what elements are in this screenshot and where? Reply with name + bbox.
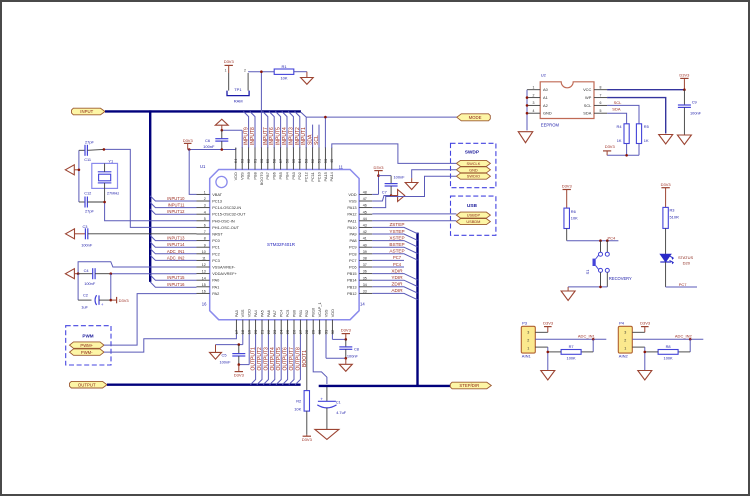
svg-text:D3V3: D3V3	[679, 72, 690, 77]
svg-text:INPUT5: INPUT5	[276, 127, 282, 145]
svg-text:PB5: PB5	[278, 172, 283, 179]
capacitor C5	[232, 345, 245, 365]
junction VBAT/D3V3	[188, 148, 191, 151]
wire net OUTPUT7 from U1 pin 26	[289, 335, 294, 385]
wire U2 address pins to ground	[526, 90, 528, 131]
wire net OUTPUT2 from U1 pin 21	[257, 335, 262, 385]
wire D3V3 to U1 pin 64	[188, 148, 236, 150]
svg-text:PB8: PB8	[252, 172, 257, 179]
svg-text:YSTEP: YSTEP	[389, 229, 404, 234]
power D3V3 (C2)	[111, 297, 130, 303]
value AIN2 (P4)	[619, 354, 629, 359]
svg-text:SDA: SDA	[308, 134, 314, 145]
svg-text:PB6: PB6	[272, 172, 277, 179]
port PWM+	[70, 342, 105, 348]
resistor R2	[304, 391, 309, 412]
junction D3V3 pin48	[377, 174, 380, 177]
mcu U1 body	[210, 170, 359, 320]
label D20	[683, 261, 691, 266]
svg-text:48: 48	[363, 191, 367, 195]
svg-text:53: 53	[304, 158, 309, 163]
mcu corner number 14	[360, 301, 365, 306]
net label XDIR	[391, 268, 403, 273]
svg-text:R7: R7	[569, 344, 574, 349]
resistor R1	[274, 69, 294, 74]
svg-text:36: 36	[363, 270, 367, 274]
net label OUTPUT5	[276, 347, 282, 371]
wire C2 left rail	[78, 274, 91, 300]
svg-text:+: +	[320, 398, 323, 403]
svg-text:INPUT14: INPUT14	[167, 242, 185, 247]
svg-text:1: 1	[225, 69, 227, 73]
svg-text:24: 24	[279, 329, 284, 334]
U1 pins top side (64-49)	[233, 148, 334, 186]
net label YSTEP	[389, 229, 404, 234]
svg-text:VSS: VSS	[349, 199, 357, 204]
svg-text:PC2: PC2	[212, 251, 220, 256]
label C1	[336, 399, 341, 404]
wire crystal ground rail	[78, 150, 80, 202]
label C3	[83, 224, 88, 229]
svg-text:STM32F401R: STM32F401R	[267, 242, 296, 247]
wire WP net (U2 pin 7 to ground)	[607, 98, 666, 134]
ground (C9)	[677, 135, 691, 145]
capacitor C3	[85, 228, 87, 239]
svg-text:OUTPUT6: OUTPUT6	[283, 347, 289, 371]
svg-text:D3V3: D3V3	[373, 165, 384, 170]
svg-text:PC1: PC1	[212, 245, 220, 250]
svg-text:PB14: PB14	[347, 278, 357, 283]
power D3V3 (C5 group)	[234, 365, 245, 378]
svg-text:BOOT0: BOOT0	[259, 171, 264, 185]
svg-text:PWM: PWM	[82, 334, 93, 339]
svg-text:PB2: PB2	[304, 310, 309, 317]
net label INPUT7	[263, 127, 269, 145]
wire D3V3 node to C10 top	[379, 175, 392, 177]
wire net ZDIR from U1 pin 34	[372, 287, 417, 293]
wire net ADC_IN2 to U1 pin 11	[150, 255, 196, 260]
svg-text:27: 27	[298, 329, 303, 334]
net label INPUT15	[167, 275, 185, 280]
svg-text:P3: P3	[522, 321, 528, 326]
svg-text:PB1: PB1	[298, 310, 303, 317]
svg-text:U1: U1	[200, 164, 206, 169]
crystal Y1	[92, 163, 118, 188]
svg-text:14: 14	[360, 301, 365, 306]
wire net XDIR from U1 pin 36	[372, 274, 417, 280]
wire C4-C7 right rail	[110, 274, 112, 300]
svg-text:PC6: PC6	[349, 265, 357, 270]
svg-text:PWM+: PWM+	[80, 343, 93, 348]
svg-text:4: 4	[533, 109, 535, 113]
junction gnd rail	[78, 169, 81, 172]
svg-text:100nF: 100nF	[394, 174, 406, 179]
svg-text:ADC_IN1: ADC_IN1	[167, 249, 185, 254]
label C6	[205, 138, 211, 143]
svg-text:18: 18	[240, 329, 245, 334]
U1 pins left side (1-16)	[197, 191, 247, 296]
svg-text:A0: A0	[543, 87, 549, 92]
svg-text:WP: WP	[585, 95, 592, 100]
svg-text:SWCLK: SWCLK	[466, 161, 480, 166]
capacitor C2 (1uF electrolytic)	[95, 295, 111, 307]
svg-text:7: 7	[204, 230, 206, 234]
label R7	[569, 344, 574, 349]
svg-text:27MHz: 27MHz	[107, 191, 119, 196]
wire P3 pin3 to D3V3	[535, 331, 548, 333]
dashed harness box SWDP	[451, 143, 496, 187]
svg-text:10: 10	[202, 250, 206, 254]
value 100nF (C10)	[394, 174, 406, 179]
resistor R7	[561, 350, 581, 355]
svg-text:PC12: PC12	[304, 172, 309, 182]
svg-text:INPUT2: INPUT2	[295, 127, 301, 145]
svg-text:D3V3: D3V3	[224, 59, 235, 64]
net label ADC_IN2	[167, 255, 185, 260]
svg-text:XDIR: XDIR	[391, 268, 403, 273]
svg-text:C8: C8	[354, 346, 359, 351]
svg-text:C9: C9	[692, 99, 697, 104]
capacitor C10	[385, 176, 398, 196]
svg-text:S1: S1	[585, 270, 590, 275]
power D3V3 (P3)	[543, 321, 554, 333]
wire net ADIR from U1 pin 33	[372, 293, 417, 299]
svg-text:PA0: PA0	[212, 278, 220, 283]
wire VSS node to U1 pin 63	[222, 130, 242, 148]
junction C8 bottom	[345, 357, 348, 360]
svg-text:INPUT13: INPUT13	[167, 236, 185, 241]
wire INPUT bus vertical	[149, 110, 151, 282]
value 10K (R6)	[571, 216, 578, 221]
wire SDA net (U2 pin 5 to R4)	[607, 113, 627, 124]
wire C10 bottom to U1 pin 47 VSS	[372, 196, 391, 202]
svg-text:28: 28	[304, 329, 309, 334]
ground (R1)	[301, 72, 314, 85]
svg-text:PH1-OSC-OUT: PH1-OSC-OUT	[212, 225, 239, 230]
power D3V3 (C9)	[679, 72, 690, 90]
svg-text:25: 25	[285, 329, 290, 334]
wire PWM+ to U1 pin 16	[104, 294, 197, 346]
wire net INPUT16 to U1 pin 15 (bus end)	[150, 282, 196, 287]
wire net YDIR from U1 pin 35	[372, 280, 417, 286]
wire net INPUT9 to U1 pin 62	[243, 111, 248, 148]
svg-text:PB15: PB15	[347, 271, 357, 276]
wire R3 to LED	[665, 228, 667, 254]
resistor R5	[636, 124, 641, 144]
ground (P4)	[638, 371, 652, 381]
net label INPUT11	[168, 203, 186, 208]
svg-text:39: 39	[363, 250, 367, 254]
power D3V3 (R3)	[661, 182, 672, 208]
wire pullup bottoms to D3V3	[607, 144, 639, 156]
svg-text:60: 60	[259, 158, 264, 163]
wire net PC4 stub from U1 pin 37	[372, 266, 404, 268]
svg-text:5: 5	[204, 217, 206, 221]
svg-text:4: 4	[204, 210, 206, 214]
U1 pins bottom side (17-32)	[234, 302, 335, 334]
label P3	[522, 321, 528, 326]
wire USBDP net (U1 pin 45 PA12 to port)	[372, 213, 456, 215]
value 100nF (C5)	[219, 360, 231, 365]
wire net INPUT2 to U1 pin 54	[295, 111, 300, 148]
ground (U2 address)	[518, 132, 533, 143]
wire U1 pin 29 PB10 to STEP/DIR bus	[313, 335, 327, 385]
svg-text:1: 1	[624, 347, 626, 351]
label C2	[83, 292, 88, 297]
junction S1 bottom	[599, 286, 602, 289]
wire net OUTPUT5 from U1 pin 24	[276, 335, 281, 385]
svg-text:23: 23	[272, 329, 277, 334]
svg-text:10K: 10K	[294, 407, 301, 412]
svg-text:19: 19	[247, 329, 252, 334]
net label INPUT5	[276, 127, 282, 145]
svg-text:VBAT: VBAT	[212, 192, 222, 197]
net label INPUT8	[250, 127, 256, 145]
svg-text:C11: C11	[84, 157, 91, 162]
wire net BOOT1 (U1 pin 28 to R2)	[306, 335, 308, 391]
svg-text:1K: 1K	[644, 138, 649, 143]
value 27pF (C12)	[85, 209, 94, 214]
resistor R4	[624, 124, 629, 144]
svg-text:D3V3: D3V3	[341, 328, 352, 333]
wire U1 pin 50 to MODE	[324, 117, 326, 148]
svg-text:3: 3	[624, 331, 626, 335]
svg-text:2: 2	[624, 339, 626, 343]
junction C10 bottom	[390, 194, 393, 197]
label STATUS (D20)	[678, 255, 694, 260]
svg-text:38: 38	[363, 257, 367, 261]
svg-text:64: 64	[233, 158, 238, 163]
eeprom U2 body	[540, 82, 594, 119]
wire R7 right leg	[581, 339, 593, 352]
svg-text:PA4: PA4	[253, 309, 258, 317]
junction ADC_IN1/R7	[592, 338, 595, 341]
svg-text:PC9: PC9	[349, 245, 357, 250]
label R3	[670, 208, 675, 213]
junction R8 left	[644, 351, 647, 354]
value 100K (R8)	[664, 356, 673, 361]
value 10K (R1)	[280, 76, 287, 81]
svg-text:GND: GND	[543, 111, 552, 116]
svg-text:41: 41	[363, 237, 367, 241]
svg-text:1: 1	[527, 347, 529, 351]
net label INPUT14	[167, 242, 185, 247]
junction S1 top right	[606, 239, 609, 242]
svg-text:32: 32	[330, 329, 335, 334]
net label ZSTEP	[389, 222, 404, 227]
svg-text:C6: C6	[205, 138, 211, 143]
wire D3V3 to U1 pin 48	[372, 176, 378, 195]
svg-text:SWDP: SWDP	[465, 150, 480, 156]
wire SWCLK net (U1 pin 49 to port)	[332, 144, 457, 164]
svg-text:BOOT1: BOOT1	[302, 350, 308, 367]
label R4	[617, 124, 623, 129]
port MODE	[457, 114, 491, 121]
wire net ASTEP from U1 pin 39	[372, 254, 417, 260]
svg-text:PH0-OSC-IN: PH0-OSC-IN	[212, 218, 235, 223]
port STEP/DIR	[450, 382, 491, 389]
net label YDIR	[391, 275, 403, 280]
svg-text:9: 9	[204, 243, 206, 247]
svg-text:OUTPUT3: OUTPUT3	[263, 347, 269, 371]
value 27MHz (Y1)	[107, 191, 119, 196]
wire S1 bottom to ground	[568, 286, 607, 288]
junction C4 left	[77, 272, 80, 275]
wire net BSTEP from U1 pin 40	[372, 247, 417, 253]
wire net INPUT5 to U1 pin 57	[275, 111, 280, 148]
net label INPUT3	[288, 127, 294, 145]
svg-text:USBDP: USBDP	[467, 213, 481, 218]
svg-text:YDIR: YDIR	[391, 275, 403, 280]
wire net INPUT12 to U1 pin 4	[150, 209, 196, 214]
value 1K (R5)	[644, 138, 649, 143]
svg-text:PA13: PA13	[347, 205, 356, 210]
wire net INPUT3 to U1 pin 55	[288, 111, 293, 148]
svg-text:34: 34	[363, 283, 367, 287]
svg-text:C2: C2	[83, 292, 88, 297]
capacitor C12	[79, 197, 104, 208]
svg-text:100K: 100K	[567, 356, 576, 361]
svg-text:PB0: PB0	[291, 309, 296, 317]
wire net XSTEP from U1 pin 41	[372, 241, 417, 247]
net label OUTPUT8	[295, 347, 301, 371]
svg-text:INPUT1: INPUT1	[301, 127, 307, 145]
svg-text:OUTPUT1: OUTPUT1	[251, 347, 257, 371]
svg-text:PC0: PC0	[212, 238, 220, 243]
svg-text:VSSA/VREF-: VSSA/VREF-	[212, 265, 236, 270]
svg-text:PC5: PC5	[285, 310, 290, 318]
svg-text:D3V3: D3V3	[119, 298, 130, 303]
net label ADIR	[391, 288, 403, 293]
svg-text:45: 45	[363, 210, 367, 214]
ground (WP)	[659, 135, 673, 145]
wire net INPUT11 to U1 pin 3	[150, 202, 196, 207]
svg-text:14: 14	[202, 276, 206, 280]
svg-text:2: 2	[204, 197, 206, 201]
value 1K (R4)	[617, 138, 622, 143]
wire net ADC_IN1 to U1 pin 10	[150, 249, 196, 254]
svg-text:PB3: PB3	[291, 172, 296, 179]
connector P3	[521, 326, 535, 353]
svg-text:5: 5	[600, 109, 602, 113]
ground (C5 group)	[210, 345, 222, 360]
wire net OUTPUT6 from U1 pin 25	[282, 335, 287, 385]
svg-text:+: +	[101, 302, 104, 307]
port SWCLK	[456, 160, 490, 166]
svg-text:30: 30	[317, 329, 322, 334]
value 10K (R2)	[294, 407, 301, 412]
svg-text:MODE: MODE	[469, 115, 482, 120]
svg-text:2: 2	[244, 69, 246, 73]
svg-text:D3V3: D3V3	[661, 182, 672, 187]
svg-text:TP1: TP1	[234, 87, 242, 92]
svg-text:63: 63	[240, 158, 245, 163]
label S1	[585, 270, 590, 275]
jumper TP1	[225, 69, 249, 96]
wire OUTPUT bus	[107, 384, 301, 386]
net label OUTPUT7	[289, 347, 295, 371]
net label INPUT16	[167, 282, 185, 287]
U2 pins left (1-4)	[527, 86, 552, 116]
value EEPROM (U2)	[541, 122, 560, 127]
svg-text:3: 3	[204, 204, 206, 208]
svg-text:10K: 10K	[571, 216, 578, 221]
wire net OUTPUT1 from U1 pin 20	[250, 335, 255, 385]
svg-text:50: 50	[323, 158, 328, 163]
wire VDDA (C4 right to U1 pin 13)	[111, 273, 197, 275]
svg-text:INPUT16: INPUT16	[167, 282, 185, 287]
wire net INPUT14 to U1 pin 9	[150, 242, 196, 247]
power D3V3 (C6 / VDD pin 64)	[183, 138, 194, 150]
svg-text:100K: 100K	[664, 356, 673, 361]
svg-text:PA5: PA5	[259, 310, 264, 317]
wire U1 pin 18 VSS to ground	[216, 335, 243, 345]
net label ADC_IN2	[675, 334, 693, 339]
net label INPUT12	[167, 209, 185, 214]
net label INPUT6	[269, 127, 275, 145]
svg-text:PC7: PC7	[349, 258, 357, 263]
svg-text:INPUT4: INPUT4	[282, 127, 288, 145]
wire net INPUT8 to U1 pin 61	[250, 111, 255, 148]
svg-text:D3V3: D3V3	[562, 184, 573, 189]
wire VBAT (D3V3 to U1 pin 1)	[189, 150, 196, 195]
svg-text:OUTPUT8: OUTPUT8	[295, 347, 301, 371]
wire U1 pin 31 VSS to ground	[326, 335, 346, 359]
svg-text:INPUT6: INPUT6	[269, 127, 275, 145]
wire net INPUT6 to U1 pin 58	[269, 111, 274, 148]
wire net ZSTEP from U1 pin 43	[372, 227, 417, 233]
net label INPUT2	[295, 127, 301, 145]
svg-text:16: 16	[202, 301, 207, 306]
svg-text:44: 44	[363, 217, 367, 221]
svg-text:R4: R4	[617, 124, 623, 129]
svg-text:7: 7	[600, 93, 602, 97]
svg-text:PB7: PB7	[265, 172, 270, 179]
svg-text:INPUT11: INPUT11	[168, 203, 186, 208]
svg-text:BSTEP: BSTEP	[389, 242, 404, 247]
svg-text:VSS: VSS	[240, 172, 245, 180]
svg-text:D3V3: D3V3	[605, 144, 616, 149]
svg-text:54: 54	[297, 158, 302, 163]
svg-text:33: 33	[363, 290, 367, 294]
svg-text:R3: R3	[670, 208, 675, 213]
svg-text:42: 42	[363, 230, 367, 234]
svg-text:100nF: 100nF	[84, 281, 96, 286]
led D20 STATUS	[660, 254, 673, 264]
wire NRST net (C3 to U1 pin 7)	[88, 233, 197, 235]
wire net INPUT13 to U1 pin 8	[150, 235, 196, 240]
label C10	[382, 190, 387, 195]
net label INPUT13	[167, 236, 185, 241]
svg-text:46: 46	[363, 204, 367, 208]
svg-text:ADC_IN1: ADC_IN1	[578, 334, 596, 339]
svg-text:NRST: NRST	[212, 232, 223, 237]
svg-text:4.7uF: 4.7uF	[336, 410, 347, 415]
svg-text:11: 11	[339, 164, 344, 169]
wire PWM- to U1 pin 17	[104, 335, 236, 353]
ground (P3)	[541, 371, 555, 381]
svg-text:PC14-OSC32-IN: PC14-OSC32-IN	[212, 205, 241, 210]
power D3V3 (R2)	[302, 411, 313, 442]
capacitor C8	[339, 339, 352, 358]
svg-text:PA6: PA6	[266, 310, 271, 317]
junction ADC_IN2/R8	[689, 338, 692, 341]
value 27pF (C11)	[85, 140, 94, 145]
svg-text:1K: 1K	[617, 138, 622, 143]
svg-text:D3V3: D3V3	[234, 373, 245, 378]
svg-text:43: 43	[363, 224, 367, 228]
svg-text:INPUT7: INPUT7	[263, 127, 269, 145]
